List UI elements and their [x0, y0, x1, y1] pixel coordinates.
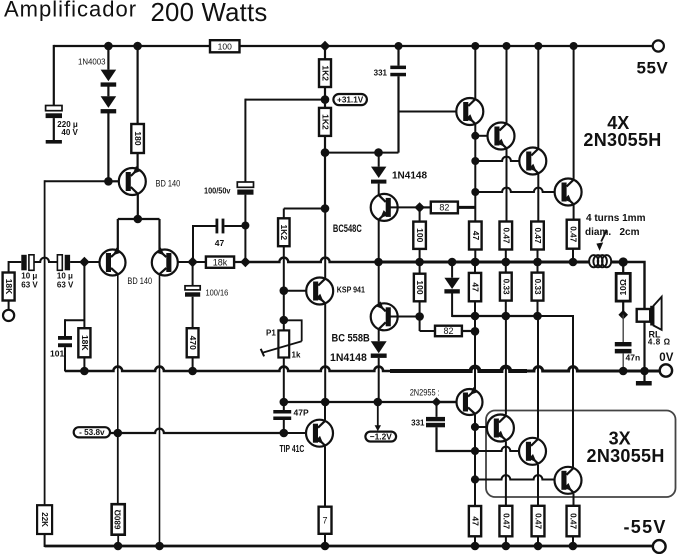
resistor 47 (T1 emitter): [469, 222, 482, 250]
wire T6 collector up: [537, 316, 539, 438]
wire 47a to output bus: [474, 250, 476, 263]
svg-text:100/16: 100/16: [206, 288, 229, 298]
label 100/50v: [204, 187, 231, 196]
svg-text:1N4003: 1N4003: [78, 56, 106, 66]
wire Q5 base right: [390, 206, 420, 208]
junction Q5 base node: [414, 202, 424, 212]
wire T3 base (hump over T2 emitter): [475, 157, 519, 161]
label TIP 41C: [280, 444, 305, 455]
wire 0.47c to output bus: [572, 249, 574, 262]
junction T4 collector/rail: [570, 42, 578, 50]
wire Q2 collector to 680: [117, 433, 119, 504]
wire T1 emitter chain: [474, 124, 476, 222]
resistor 82 (upper): [431, 202, 458, 214]
transistor Q8 2N2955: [457, 387, 483, 415]
junction -53.8v/680 column: [114, 429, 123, 438]
junction T6/-55V bus: [534, 542, 543, 551]
wire RC top link: [65, 319, 84, 321]
transistor T7 2N3055H: [555, 467, 582, 494]
capacitor C 10u/63V (first): [21, 255, 34, 270]
wire jog to 82b: [420, 330, 435, 332]
svg-text:BD 140: BD 140: [127, 276, 152, 286]
wire Q2 base node down: [83, 262, 85, 328]
diode 1N4148 (output bias): [444, 278, 459, 294]
label -55V: [624, 517, 667, 537]
junction diode chain / Q1 base: [104, 177, 113, 186]
transistor T6 2N3055H: [519, 438, 546, 465]
svg-text:BC548C: BC548C: [333, 223, 362, 235]
svg-text:100: 100: [415, 280, 425, 294]
wire rail to D1: [107, 46, 109, 70]
trimmer P1 wiper link to top: [284, 320, 302, 341]
wire T7 emitter down: [573, 494, 575, 506]
inductor L1 (4 turns): [589, 255, 611, 267]
wire ground bus (right, humps): [527, 367, 660, 371]
junction T7/-55V bus: [569, 542, 578, 551]
junction TIP41C collector node: [321, 398, 330, 407]
wire bus to 0.33a: [505, 262, 507, 273]
junction Q5 emitter/output bus: [374, 258, 383, 267]
wire Q5 emitter to output bus: [378, 220, 380, 262]
svg-text:TIP 41C: TIP 41C: [280, 444, 305, 455]
svg-text:P1: P1: [266, 329, 276, 338]
label 101: [50, 349, 64, 359]
wire T1 base: [399, 111, 457, 113]
wire 1K2a-1K2b: [324, 100, 326, 108]
wire 0.33a down: [505, 301, 507, 316]
wire T2 collector to rail: [506, 46, 508, 124]
resistor 10 ohm: [616, 273, 630, 301]
wire Q3 base node down: [192, 262, 194, 286]
svg-text:47: 47: [470, 282, 480, 292]
speaker cone: [654, 297, 662, 330]
svg-text:0.47: 0.47: [569, 513, 578, 529]
wire 18k to output node: [234, 261, 245, 263]
svg-text:40 V: 40 V: [61, 128, 78, 137]
junction output/18k node: [240, 257, 250, 267]
title text 200 Watts: [151, 0, 268, 27]
wire T6 base (hump): [475, 447, 519, 451]
output stage group box 3X 2N3055H: [486, 411, 676, 498]
arrow to inductor: [596, 231, 606, 251]
svg-text:10 μ: 10 μ: [21, 272, 37, 281]
label 4.8 ohm: [648, 338, 671, 347]
wire 100/16 to R470: [192, 297, 194, 329]
wire T6 res to bus: [537, 536, 539, 546]
junction R7/-55V bus: [321, 542, 330, 551]
wire link down to cap 101: [64, 319, 66, 336]
wire TIP41C collector: [324, 402, 326, 420]
trimmer P1 1k body: [278, 330, 289, 357]
label 4 turns 1mm: [586, 213, 646, 224]
svg-text:−1.2V: −1.2V: [370, 431, 393, 441]
label 3X: [609, 429, 631, 449]
resistor 100 (top rail series): [210, 40, 240, 52]
label 1k: [292, 351, 301, 360]
svg-text:0.47: 0.47: [534, 513, 543, 529]
wire output to speaker: [623, 262, 644, 309]
junction 10ohm/47n: [618, 310, 628, 320]
label BC548C: [333, 223, 362, 235]
wire 1K2b down: [324, 136, 326, 153]
svg-text:7: 7: [323, 515, 328, 525]
resistor 1K2 (second): [319, 108, 331, 136]
wire T3 collector to rail: [537, 46, 539, 149]
wire T1 collector to rail: [474, 46, 476, 99]
capacitor 331 (top): [390, 66, 406, 77]
svg-text:1N4148: 1N4148: [330, 352, 367, 364]
capacitor 100/50v: [237, 182, 253, 195]
wire node down: [324, 153, 326, 209]
wire 680 to -55V bus: [117, 535, 119, 546]
title text Amplificador: [4, 0, 137, 22]
label 2N2955: [410, 387, 440, 397]
transistor T2 2N3055H: [488, 123, 515, 150]
label 1N4003: [78, 56, 106, 66]
junction 1K2b/diode node: [321, 148, 330, 157]
svg-text:Amplificador: Amplificador: [4, 0, 137, 22]
diode D2 1N4003: [101, 96, 117, 113]
junction 3055b base node: [471, 447, 479, 455]
transistor T1 2N3055H: [456, 98, 483, 125]
wire -1.2V tap: [377, 402, 379, 426]
label 47n: [626, 353, 641, 363]
svg-text:KSP 941: KSP 941: [337, 286, 365, 295]
svg-text:4 turns 1mm: 4 turns 1mm: [586, 213, 646, 224]
junction rail/cap331: [395, 42, 403, 50]
capacitor 331 (lower): [426, 417, 445, 427]
junction output node/10ohm: [619, 257, 628, 266]
resistor 0.47 (T7): [567, 506, 580, 537]
resistor 0.33 (second): [532, 273, 544, 301]
svg-text:2N3055H: 2N3055H: [587, 446, 665, 466]
capacitor 47 (across 18k): [216, 219, 225, 234]
wire T4 base (humps): [475, 188, 554, 192]
node label -1.2V: [365, 431, 396, 441]
wire 0.33b down: [537, 301, 539, 316]
junction rail/R180: [133, 42, 142, 51]
svg-text:22K: 22K: [40, 512, 49, 527]
wire base node to cap331b: [436, 402, 438, 417]
resistor 18k (feedback): [206, 257, 234, 268]
wire -53.8v line (hump over Q3 collector): [110, 429, 284, 433]
label 220u: [57, 120, 78, 129]
label 1N4148 (bias): [392, 171, 427, 182]
junction 0.33b/mid wire: [533, 312, 542, 321]
svg-text:1K2: 1K2: [320, 65, 330, 81]
wire KSP941 collector up: [324, 209, 326, 279]
wire base node jog down: [419, 317, 421, 332]
wire T7 res to bus: [572, 536, 574, 546]
junction T2 collector/rail: [503, 42, 511, 50]
wire rail to C 220u: [53, 45, 55, 106]
wire 1K2c down to KSP base: [283, 246, 285, 291]
label 2N3055H (lower): [587, 446, 665, 466]
wire 1K2a to +31.1V node: [324, 87, 326, 100]
transistor Q5 BC548C: [371, 194, 398, 221]
svg-text:82: 82: [439, 203, 449, 213]
svg-text:BD 140: BD 140: [156, 179, 181, 189]
wire Q6 emitter to 1N4148b: [378, 329, 380, 341]
wire T6 emitter down: [537, 465, 539, 506]
junction T1 collector/rail: [471, 42, 479, 50]
resistor 180: [131, 124, 144, 153]
svg-text:0V: 0V: [659, 352, 673, 364]
wire mid collector wire: [452, 315, 537, 317]
svg-text:63 V: 63 V: [57, 281, 74, 290]
label 0V: [659, 352, 673, 364]
resistor 18K (Q2 base): [78, 328, 90, 357]
svg-text:180: 180: [133, 131, 143, 145]
wire mid wire L to third collector: [538, 316, 574, 467]
wire TIP41C base: [284, 432, 306, 434]
junction 0.33b/output bus: [533, 258, 542, 267]
diode 1N4148 (bias): [371, 167, 386, 184]
wire 47cap right leg: [224, 225, 245, 227]
wire Q3 collector down (thin): [159, 275, 161, 546]
wire T5 base: [475, 426, 487, 428]
junction 3055c base node: [471, 475, 479, 483]
wire tail to Q3 top: [158, 219, 160, 250]
svg-text:+31.1V: +31.1V: [337, 95, 364, 104]
capacitor 100/16: [185, 286, 200, 297]
wire cap2 to Q2 base: [70, 261, 100, 263]
wire ground bus (left, humps): [65, 367, 390, 371]
wire base node to Q1: [108, 180, 119, 182]
label 2N3055H (upper): [583, 130, 661, 150]
svg-text:331: 331: [374, 69, 388, 78]
svg-text:0.33: 0.33: [533, 279, 542, 295]
speaker coil bar: [650, 306, 653, 326]
svg-text:82: 82: [443, 326, 453, 336]
capacitor 101: [58, 336, 72, 347]
wire D1 to D2: [107, 86, 109, 96]
junction T5/-55V bus: [502, 542, 511, 551]
wire T4 collector to rail: [573, 46, 575, 180]
wire KSP941 emitter down: [324, 304, 326, 402]
junction VAS branch: [321, 204, 330, 213]
wire 82a to T1 emitter column: [458, 206, 475, 209]
wire output node line (right bus): [379, 261, 590, 264]
transistor T4 2N3055H: [555, 179, 582, 206]
label BD 140 (Q1): [156, 179, 181, 189]
wire 100a to output bus: [419, 249, 421, 262]
junction 3055a base node: [471, 423, 479, 431]
wire tail to Q2 top: [117, 219, 119, 250]
label 331 (top): [374, 69, 388, 78]
wire KSP base node to P1: [283, 291, 285, 331]
wire bus to 47b: [474, 262, 476, 273]
svg-text:0.47: 0.47: [501, 228, 510, 244]
svg-text:-55V: -55V: [624, 517, 667, 537]
wire junction to 47n (thin): [622, 315, 624, 342]
trimmer P1 wiper arrow: [262, 341, 301, 353]
junction 82b/2N2955 collector: [471, 327, 480, 336]
junction speaker/ground bus: [640, 367, 649, 376]
ground symbol: [636, 371, 652, 386]
svg-text:diam. 2cm: diam. 2cm: [585, 227, 640, 238]
junction KSP941 base node: [280, 286, 289, 295]
wire long vertical left (22K column): [44, 180, 46, 505]
junction 18K/ground bus: [80, 367, 89, 376]
junction 100a/output bus: [415, 258, 424, 267]
wire 47c to -55V bus: [474, 536, 476, 546]
junction T3 base node: [471, 157, 479, 165]
label 10u (second): [57, 272, 73, 281]
label 1N4148 (lower): [330, 352, 367, 364]
wire cap331b L to junction: [437, 427, 476, 451]
junction 47cap/100-50v column: [241, 222, 249, 230]
svg-text:47P: 47P: [294, 408, 309, 418]
wire T5 emitter down: [505, 441, 507, 505]
wire 47b down: [474, 301, 476, 331]
wire bus to diode: [451, 262, 453, 278]
diode 1N4148 (lower): [371, 341, 387, 358]
wire R470 to ground bus: [192, 357, 194, 371]
resistor 0.47 (T6): [532, 506, 545, 537]
label 40 V: [61, 128, 78, 137]
wire KSP941 base: [284, 290, 307, 292]
wire node to 82a: [420, 206, 431, 208]
transistor Q6 BC558B: [371, 301, 398, 330]
label BD 140 (diff pair): [127, 276, 152, 286]
junction 47b/output bus: [471, 258, 480, 267]
wire 22K to -55V bus: [45, 534, 65, 546]
wire cap 331 down: [397, 76, 399, 152]
wire 82b to column: [462, 330, 475, 332]
svg-text:47: 47: [471, 231, 481, 241]
wire 47P top stub: [283, 402, 285, 410]
svg-text:18K: 18K: [4, 279, 14, 295]
wire Q2 collector down (thin): [117, 275, 119, 433]
junction 0.47b/output bus: [533, 258, 542, 267]
node label +31.1V: [333, 94, 367, 105]
terminal +55V: [653, 40, 664, 51]
label 331 (lower): [411, 419, 425, 428]
label 63V (first): [21, 281, 38, 290]
wire R18K up and right: [9, 262, 22, 273]
label RL: [649, 330, 661, 340]
junction Q3 collector/-55V bus: [155, 542, 164, 551]
wire output node line (after inductor): [611, 261, 623, 264]
resistor 100 (upper): [413, 222, 426, 249]
trimmer P1 wiper end bar: [261, 349, 264, 357]
svg-text:0.33: 0.33: [501, 279, 510, 295]
transistor Q7 TIP41C: [306, 420, 333, 447]
wire 47cap left leg: [193, 226, 216, 262]
wire +31.1V node to 100/50v column: [245, 99, 325, 101]
transistor Q4 KSP941: [306, 278, 333, 305]
wire top +55V rail right segment: [240, 45, 659, 47]
wire TIP41C emitter to R7: [324, 446, 326, 506]
wire T7 base (humps): [475, 475, 555, 479]
wire driver rail y402: [284, 401, 457, 403]
label 55V: [637, 59, 669, 78]
svg-text:18K: 18K: [80, 335, 90, 351]
wire tail horizontal: [118, 218, 160, 220]
wire rail to cap 331: [397, 46, 399, 66]
svg-text:1K2: 1K2: [320, 114, 330, 130]
junction diode column/output bus: [448, 258, 457, 267]
svg-text:47n: 47n: [626, 353, 641, 363]
svg-text:47: 47: [215, 238, 225, 248]
resistor 0.47 (T3): [531, 222, 544, 250]
resistor 0.47 (T5): [499, 506, 512, 537]
terminal input: [3, 310, 14, 321]
svg-text:331: 331: [411, 419, 425, 428]
junction 0.47c/output bus: [569, 258, 578, 267]
wire 47n to ground bus (thin): [622, 353, 624, 371]
junction 47a/output bus: [471, 258, 480, 267]
transistor Q1 BD140 (current source): [119, 166, 146, 195]
capacitor C 10u/63V (second): [57, 255, 70, 270]
wire 2N2955 emitter down chain: [474, 415, 476, 506]
terminal -55V: [653, 540, 666, 553]
junction 680/-55V bus: [114, 542, 123, 551]
arrow -1.2V: [375, 425, 381, 431]
svg-text:10Ω: 10Ω: [618, 279, 628, 295]
wire ground bus (mid thick, humps): [390, 367, 527, 371]
resistor 47 (lower): [469, 506, 481, 536]
resistor 18K (input): [3, 273, 15, 301]
junction BC558B base node: [415, 312, 424, 321]
label KSP 941: [337, 286, 365, 295]
diode D1 1N4003: [101, 70, 117, 87]
svg-text:470: 470: [188, 336, 198, 350]
resistor 22K: [37, 505, 52, 534]
svg-text:1K2: 1K2: [279, 224, 289, 240]
svg-text:10 μ: 10 μ: [57, 272, 73, 281]
wire T2 emitter down: [506, 148, 508, 221]
label 47P: [294, 408, 309, 418]
resistor 0.33 (first): [500, 273, 512, 301]
wire T3 emitter down: [537, 173, 539, 221]
label 47 (cap): [215, 238, 225, 248]
svg-text:0.47: 0.47: [501, 513, 510, 529]
wire input terminal to R 18K: [8, 301, 10, 310]
svg-text:4.8 Ω: 4.8 Ω: [648, 338, 671, 347]
svg-text:- 53.8v: - 53.8v: [79, 428, 105, 437]
junction T2 base node: [471, 132, 479, 140]
wire 18K to ground bus: [83, 357, 85, 371]
wire top +55V rail left segment: [54, 45, 210, 47]
capacitor 47P: [273, 410, 291, 420]
wire Q3 base to 18k: [178, 261, 206, 263]
wire T5 collector up: [505, 316, 507, 415]
wire T5 res to bus: [505, 536, 507, 546]
label 63V (second): [57, 281, 74, 290]
wire rail to 1K2a: [324, 46, 326, 59]
wire 0.47b to output bus: [537, 250, 539, 263]
wire Q6 collector to output bus: [378, 262, 380, 304]
junction 47n/ground bus: [619, 367, 628, 376]
label BC 558B: [332, 333, 370, 345]
wire 100/50v to output node: [244, 195, 246, 262]
wire node to 1N4148/cap331 corner: [325, 152, 399, 154]
svg-text:1k: 1k: [292, 351, 301, 360]
resistor 470: [187, 328, 199, 357]
wire 1N4148a to Q5 collector: [378, 184, 380, 195]
junction P1 top: [280, 316, 289, 325]
wire bus to 0.33b: [537, 262, 539, 273]
label diam. 2cm: [585, 227, 640, 238]
speaker RL magnet: [637, 309, 651, 322]
svg-text:100: 100: [218, 41, 232, 51]
wire D2 down to node: [107, 112, 109, 181]
wire 47P bottom stub: [283, 420, 285, 433]
label P1: [266, 329, 276, 338]
svg-text:63 V: 63 V: [21, 281, 38, 290]
